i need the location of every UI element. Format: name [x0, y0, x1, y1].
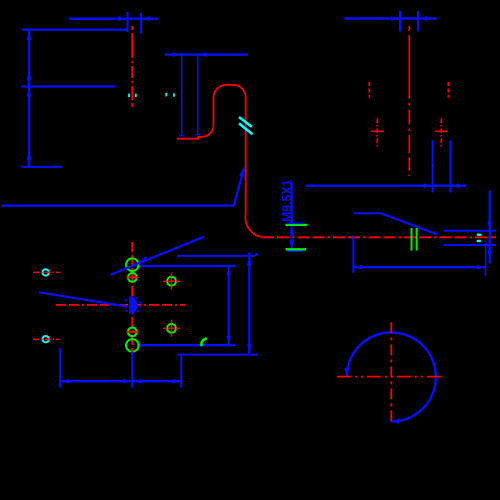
dimension I vertical outer — [248, 253, 250, 354]
flange bottom edge — [137, 344, 235, 346]
rotation arc — [347, 332, 436, 421]
vertical dimension arrow up top — [27, 31, 32, 40]
cyan ring hole 2 — [43, 336, 49, 342]
leader arrowhead up — [239, 166, 244, 177]
red hidden line x369 — [368, 82, 370, 98]
dimension E extension x432.6 — [432, 141, 434, 193]
dimension J line bottom — [60, 380, 181, 382]
red hidden line x448 — [447, 82, 449, 98]
dimension I arrow up — [247, 256, 252, 265]
cyan grip 1 — [477, 234, 482, 236]
leader 1 diagonal — [111, 237, 204, 275]
cyan break mark 2 — [239, 123, 253, 134]
green mark checkmark — [201, 338, 206, 346]
extension line x353.4 — [352, 236, 354, 273]
dimension D arrow down — [289, 241, 294, 250]
dimension C line top-right — [345, 17, 437, 19]
red part profile — [177, 85, 261, 237]
arc arrowhead left down — [344, 368, 349, 378]
cyan ring hole 1 — [43, 269, 49, 275]
red center cross right vertical — [440, 119, 442, 149]
dimension F arrow down — [487, 222, 492, 231]
red cross vertical bottom-right — [390, 322, 392, 424]
bottom reference edge line — [22, 166, 63, 168]
dimension A line top-left — [69, 18, 158, 20]
dimension J arrow mid left — [132, 379, 141, 384]
cyan tick 4 — [173, 93, 175, 96]
vertical dimension arrow down bottom — [27, 157, 32, 166]
dimension B end tick 1 — [179, 135, 184, 137]
cyan tick 2 — [135, 94, 137, 97]
red centerline ring 1 — [33, 271, 60, 273]
dimension B arrow right — [173, 52, 182, 57]
extension bottom y354.6 — [178, 354, 258, 356]
dimension G arrow right — [477, 265, 486, 270]
dimension C extension tick x418 — [417, 11, 419, 32]
cyan tick 3 — [165, 93, 167, 96]
red vertical centerline flange — [131, 242, 133, 351]
red cross small top — [127, 276, 139, 278]
blue edge bottom — [288, 250, 303, 252]
dimension C extension tick x400 — [399, 11, 401, 32]
dimension B arrow left — [198, 52, 207, 57]
red axis centerline y237 — [262, 236, 496, 238]
dimension F vertical — [489, 191, 491, 264]
taper edge line — [354, 212, 381, 214]
dimension B extension line x197.8 — [197, 55, 199, 135]
red centerline ring 2 — [33, 338, 60, 340]
red center cross left horizontal — [371, 130, 384, 132]
flange top edge — [137, 265, 235, 267]
green edge bottom — [286, 248, 307, 250]
tick on extension — [432, 165, 434, 167]
green circle small bottom — [128, 328, 137, 337]
dimension J arrow mid right — [123, 379, 132, 384]
dimension B end tick 2 — [195, 134, 200, 136]
dimension D vertical line — [291, 183, 293, 252]
dimension E arrow left — [450, 183, 459, 188]
extension x60.2 — [59, 348, 61, 388]
dimension C arrow left — [418, 16, 427, 21]
green edge top — [286, 224, 308, 226]
dashed circle around arrowdot — [124, 297, 141, 314]
green tick 1 — [411, 228, 413, 251]
leader 2 diagonal — [39, 292, 127, 306]
extension line x485.6 — [485, 241, 487, 277]
dimension D arrow up — [289, 225, 294, 234]
dimension G arrow left — [353, 265, 362, 270]
red horizontal centerline flange — [56, 304, 185, 306]
extension x132.2 blue — [131, 351, 133, 388]
pipe end top edge — [444, 230, 497, 232]
red cross hole right top — [163, 273, 180, 291]
dimension A extension tick x127.5 — [127, 12, 129, 32]
red centerline x132 top view — [131, 26, 133, 107]
top reference edge line — [22, 29, 127, 31]
green circle hole right bottom — [167, 324, 176, 333]
green circle hole right top — [167, 277, 176, 286]
leader 1 arrowhead — [138, 256, 149, 263]
dimension I arrow down — [247, 344, 252, 353]
red center cross left vertical — [376, 119, 378, 149]
dimension B extension line x181.7 — [181, 55, 183, 136]
dimension F arrow up — [487, 245, 492, 254]
extension top y255.9 — [177, 255, 254, 257]
green circle big bottom — [126, 339, 139, 352]
vertical dimension line x29 — [28, 30, 30, 167]
dimension A arrow left — [141, 16, 150, 21]
dimension H vertical inner — [228, 266, 230, 346]
dimension C arrow right — [391, 16, 400, 21]
arc arrowhead bottom left — [390, 419, 400, 424]
red cross hole right bottom — [163, 320, 180, 338]
dimension G line — [353, 266, 485, 268]
filled semicircle arrowdot — [129, 296, 138, 313]
pipe end bottom edge — [444, 244, 497, 246]
taper diagonal — [381, 213, 438, 234]
leader diagonal to profile — [234, 169, 244, 206]
long leader line y205.6 — [2, 204, 234, 206]
dimension H arrow up — [226, 266, 231, 275]
blue edge top — [287, 222, 303, 224]
red centerline x409 — [408, 26, 410, 176]
extension top oblique end — [254, 254, 258, 257]
dimension E extension x450.4 — [449, 141, 451, 193]
red cross small bottom — [127, 331, 139, 333]
extension x181.3 — [180, 355, 182, 388]
vertical dimension arrow up mid — [27, 88, 32, 97]
cyan grip 2 — [477, 240, 481, 242]
cyan tick 1 — [128, 94, 130, 97]
dimension A arrow right — [119, 16, 128, 21]
vertical dimension arrow down mid — [27, 77, 32, 86]
green circle big top — [126, 258, 139, 271]
dimension B line over hump — [165, 53, 248, 55]
mid reference edge line — [22, 85, 116, 87]
dimension E arrow right — [424, 183, 433, 188]
dimension A extension tick x141 — [140, 13, 142, 34]
dimension E line right — [306, 184, 466, 186]
dimension J arrow right end — [172, 379, 181, 384]
green circle small top — [128, 273, 137, 282]
cyan break mark 1 — [239, 117, 252, 127]
green tick 2 — [416, 228, 418, 251]
red cross horizontal bottom-right — [337, 376, 445, 378]
dimension H arrow down — [226, 336, 231, 345]
dimension J arrow left end — [60, 379, 69, 384]
red center cross right horizontal — [435, 130, 448, 132]
